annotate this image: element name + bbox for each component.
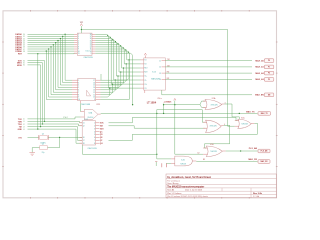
capacitor C7 (40, 146, 48, 150)
svg-text:74HC245N: 74HC245N (83, 57, 93, 59)
wire (165, 60, 252, 62)
wire (28, 136, 39, 138)
junction (57, 40, 58, 41)
junction (37, 53, 38, 54)
wire gate C out loop (109, 123, 258, 140)
svg-text:D8: D8 (23, 51, 25, 53)
wire (101, 112, 258, 114)
wire bus (28, 65, 41, 127)
svg-text:S0: S0 (23, 60, 25, 62)
junction (60, 38, 61, 39)
IC U2 pin 7 (72, 94, 78, 96)
wire (205, 125, 230, 148)
junction (123, 47, 124, 48)
flag MAX_A1 (264, 65, 274, 69)
svg-text:S2: S2 (23, 65, 25, 67)
svg-text:74HC165N: 74HC165N (87, 148, 97, 150)
junction (107, 35, 108, 36)
junction (125, 49, 126, 50)
junction (53, 44, 54, 45)
wire u2data3 (101, 72, 121, 87)
wire (95, 51, 129, 99)
gate U3A NAND (84, 109, 98, 119)
wire (226, 150, 258, 152)
svg-text:IC12: IC12 (84, 119, 88, 121)
wire to gate B in2 (109, 126, 206, 128)
svg-text:10: 10 (90, 51, 92, 53)
IC U4 pin R4 (96, 131, 100, 133)
svg-text:J2: J2 (23, 124, 25, 126)
IC U1 74HC245 box (77, 33, 92, 55)
wire (28, 50, 75, 52)
wire (119, 71, 141, 73)
wire data0 (95, 34, 108, 88)
IC U4 pin R5 (96, 134, 100, 136)
svg-text:GND: GND (18, 129, 23, 131)
IC U5 pin L6 (141, 79, 144, 81)
IC U5 pin R4 (162, 78, 166, 80)
svg-text:D5: D5 (23, 45, 25, 47)
IC U5 pin L1 (141, 59, 144, 61)
svg-text:Sven /Benny: Sven /Benny (167, 183, 178, 185)
IC U5 pin L8 (141, 87, 144, 89)
svg-text:PLX_AB: PLX_AB (249, 147, 258, 150)
junction (48, 48, 49, 49)
svg-text:5: 5 (94, 134, 95, 136)
wire (114, 79, 141, 81)
junction (55, 42, 56, 43)
IC U2 pin 9 (72, 98, 78, 100)
junction (46, 50, 47, 51)
wire (196, 161, 257, 163)
svg-text:The MAX232 transceivercomputer: The MAX232 transceivercomputer (167, 186, 204, 189)
svg-text:5: 5 (78, 40, 79, 42)
svg-text:74HC32N: 74HC32N (210, 151, 217, 153)
svg-text:4: 4 (78, 85, 79, 87)
wire u2data0 (101, 60, 130, 80)
svg-text:Plot:1.1 leefsma 2013-07-19: Plot:1.1 leefsma 2013-07-19 15:31:33 33%… (167, 195, 208, 198)
svg-text:12: 12 (159, 67, 161, 69)
U5 top pin (144, 55, 146, 58)
IC U1 pin 2 (74, 35, 77, 37)
wire (127, 59, 141, 61)
svg-text:18: 18 (83, 143, 85, 145)
svg-text:74HC08: 74HC08 (180, 164, 186, 166)
svg-text:14: 14 (93, 87, 95, 89)
junction (112, 39, 113, 40)
junction (120, 71, 121, 72)
wire (116, 75, 140, 77)
wire (200, 101, 205, 105)
svg-text:RX: RX (203, 159, 205, 161)
IC U1 pin 7 (74, 46, 77, 48)
junction (128, 59, 129, 60)
svg-text:12: 12 (90, 47, 92, 49)
svg-text:3: 3 (78, 82, 79, 84)
flag MAX_A3 (264, 78, 274, 82)
svg-text:8: 8 (78, 47, 79, 49)
wire xtal2 (28, 117, 81, 119)
svg-text:74HC00: 74HC00 (87, 117, 93, 119)
junction (120, 45, 121, 46)
flag MAX_A0 (264, 59, 274, 63)
wire (28, 35, 75, 37)
wire (155, 162, 157, 166)
svg-text:MAX_A2: MAX_A2 (255, 72, 264, 75)
IC U2 pin 2 (72, 82, 78, 84)
junction (115, 79, 116, 80)
wire (100, 74, 102, 80)
svg-text:+5 SMD1: +5 SMD1 (164, 102, 172, 104)
wire (80, 26, 82, 33)
svg-text:For working at: For working at (167, 179, 180, 182)
svg-text:D0: D0 (23, 34, 25, 36)
wire (28, 129, 83, 143)
IC U5 pin L4 (141, 71, 144, 73)
svg-text:J3: J3 (23, 126, 25, 128)
svg-text:Q1: Q1 (42, 133, 44, 135)
svg-text:22p: 22p (42, 152, 45, 154)
wire to gate C in1 (109, 117, 238, 122)
junction (40, 126, 41, 127)
junction (117, 75, 118, 76)
wire data6 (95, 47, 124, 64)
wire (28, 44, 75, 46)
svg-text:D2: D2 (23, 38, 25, 40)
svg-text:D4: D4 (23, 43, 25, 45)
wire u2data4 (101, 76, 119, 90)
svg-text:11: 11 (83, 123, 85, 125)
junction (64, 34, 65, 35)
wire (162, 90, 252, 95)
svg-text:9: 9 (91, 53, 92, 55)
wire (124, 63, 140, 65)
wire (28, 46, 75, 48)
IC U2 pin 4 (72, 86, 78, 88)
svg-text:C1+: C1+ (144, 76, 147, 78)
wire (200, 105, 205, 108)
wire bus v (65, 34, 72, 80)
junction (82, 137, 83, 138)
junction (81, 29, 82, 30)
wire (157, 113, 171, 158)
wire data2 (95, 39, 114, 81)
svg-text:S1: S1 (23, 63, 25, 65)
wire (157, 110, 206, 123)
svg-text:11: 11 (159, 60, 161, 62)
wire u2data1 (101, 64, 127, 83)
wire (28, 48, 75, 50)
junction (117, 43, 118, 44)
svg-text:P3: P3 (268, 79, 270, 81)
svg-text:9: 9 (94, 99, 95, 101)
svg-text:IC13: IC13 (152, 71, 156, 73)
wire bus v (63, 36, 72, 82)
capacitor C9 (162, 163, 167, 167)
svg-text:J1: J1 (23, 121, 25, 123)
svg-text:Plot: 1.1 Uniform: Plot: 1.1 Uniform (167, 192, 182, 195)
svg-text:2: 2 (78, 34, 79, 36)
wire bus v (60, 39, 72, 86)
junction (109, 88, 110, 89)
title block (166, 174, 277, 198)
IC U1 pin 1 (74, 33, 77, 35)
junction (163, 104, 164, 105)
IC U1 pin 10 (74, 52, 77, 54)
IC U4 pin R8 (96, 142, 100, 144)
junction (132, 104, 133, 105)
svg-text:Size: A4: Size: A4 (167, 189, 174, 192)
svg-text:9: 9 (78, 97, 79, 99)
wire (28, 124, 83, 126)
svg-text:6: 6 (78, 90, 79, 92)
svg-text:7: 7 (94, 140, 95, 142)
flag PLX_AB (258, 149, 270, 153)
IC U5 pin R3 (162, 72, 166, 74)
wire bus (28, 63, 43, 124)
IC U2 74HC244 box (78, 79, 96, 101)
svg-text:J4: J4 (23, 129, 25, 131)
svg-text:SDO: SDO (100, 128, 104, 130)
IC U2 pin 6 (72, 91, 78, 93)
svg-text:10: 10 (93, 97, 95, 99)
svg-text:D3: D3 (23, 40, 25, 42)
wire (83, 137, 157, 154)
junction (156, 113, 157, 114)
svg-text:8: 8 (94, 143, 95, 145)
svg-text:MAX_A3: MAX_A3 (255, 78, 264, 81)
junction (44, 121, 45, 122)
svg-text:17: 17 (83, 140, 85, 142)
wire (163, 104, 165, 114)
svg-text:4: 4 (78, 38, 79, 40)
junction (123, 67, 124, 68)
wire data7 (95, 49, 127, 60)
wire VCC rail (81, 30, 234, 127)
gate U7C OR (238, 119, 251, 128)
wire (165, 66, 252, 68)
flag MAX_RX (258, 160, 270, 164)
svg-text:12: 12 (83, 125, 85, 127)
svg-text:P2: P2 (268, 73, 270, 75)
svg-text:17: 17 (93, 80, 95, 82)
wire (28, 121, 83, 122)
wire (122, 67, 141, 69)
junction (42, 123, 43, 124)
svg-text:XT1: XT1 (18, 137, 21, 139)
svg-text:IC10: IC10 (86, 51, 90, 53)
junction (115, 41, 116, 42)
junction (59, 137, 60, 138)
wire (165, 72, 252, 74)
IC U2 symbol mark (87, 90, 91, 96)
IC U5 MAX202 box (144, 58, 166, 90)
svg-text:9: 9 (78, 49, 79, 51)
svg-text:14: 14 (90, 42, 92, 44)
junction (239, 113, 240, 114)
svg-text:MAX_TX: MAX_TX (246, 111, 255, 114)
wire RST down (37, 54, 39, 129)
wire (80, 103, 82, 111)
wire u2data5 (101, 80, 116, 92)
wire (224, 104, 239, 121)
svg-text:16: 16 (83, 137, 85, 139)
wire bus v (58, 41, 72, 88)
IC U1 pin 5 (74, 42, 77, 44)
svg-text:2: 2 (78, 80, 79, 82)
svg-text:4: 4 (94, 131, 95, 133)
wire (28, 38, 75, 40)
svg-text:LT 1054: LT 1054 (147, 100, 157, 104)
flag MAX_A2 (264, 71, 274, 75)
svg-text:7: 7 (78, 45, 79, 47)
svg-text:MAX_RX: MAX_RX (260, 160, 268, 163)
wire (48, 137, 60, 147)
wire (95, 53, 132, 104)
junction (240, 150, 241, 151)
wire u2data6 (101, 84, 113, 95)
wire data5 (95, 45, 121, 68)
svg-text:1: 1 (94, 123, 95, 125)
IC U5 pin L3 (141, 67, 144, 69)
svg-text:MAX_A1: MAX_A1 (255, 66, 264, 69)
junction (37, 128, 38, 129)
svg-text:PLX_AB: PLX_AB (261, 150, 268, 153)
svg-text:18: 18 (90, 34, 92, 36)
svg-text:3: 3 (78, 36, 79, 38)
wire (165, 78, 252, 80)
svg-text:5: 5 (78, 87, 79, 89)
power VCC (80, 24, 82, 26)
svg-text:Rev 3.0b: Rev 3.0b (253, 193, 263, 195)
svg-text:10: 10 (78, 51, 80, 53)
junction (126, 63, 127, 64)
wire (28, 127, 83, 141)
svg-text:11: 11 (93, 94, 95, 96)
IC U4 pin R6 (96, 136, 100, 138)
wire (111, 83, 140, 85)
wire bus v (51, 47, 72, 95)
IC U4 pin R7 (96, 139, 100, 141)
svg-text:MAX202E: MAX202E (151, 78, 160, 81)
svg-text:MOSI: MOSI (17, 65, 22, 67)
svg-text:C2+: C2+ (144, 84, 147, 86)
svg-text:C16 a: C16 a (157, 98, 161, 100)
junction (156, 154, 157, 155)
IC U4 pin R1 (96, 122, 100, 124)
wire data4 (95, 43, 119, 72)
IC U5 pin L5 (141, 75, 144, 77)
junction (174, 104, 175, 105)
wire (175, 105, 203, 155)
wire bus v (56, 43, 72, 90)
svg-text:MAX_EN: MAX_EN (255, 94, 264, 97)
svg-text:MAX_RX: MAX_RX (248, 158, 257, 161)
svg-text:15: 15 (93, 85, 95, 87)
wire u2data2 (101, 68, 124, 85)
gate U7D OR (206, 146, 222, 157)
svg-text:11: 11 (90, 49, 92, 51)
wire (28, 40, 75, 42)
IC U1 pin 8 (74, 48, 77, 50)
wire bus v (53, 45, 72, 92)
svg-text:Date: 1 Jan 13 2013: Date: 1 Jan 13 2013 (185, 189, 202, 192)
wire (109, 87, 141, 89)
svg-text:15: 15 (90, 40, 92, 42)
wire (166, 162, 171, 164)
svg-text:11: 11 (78, 53, 80, 55)
svg-text:P1: P1 (268, 67, 270, 69)
svg-text:by_donaldson, rwest, SoYS and: by_donaldson, rwest, SoYS and Green (167, 176, 211, 179)
IC U2 pin 5 (72, 89, 78, 91)
wire data3 (95, 41, 116, 76)
IC U1 pin 6 (74, 44, 77, 46)
junction (62, 36, 63, 37)
gate U7B OR (206, 120, 222, 132)
svg-text:D1: D1 (23, 36, 25, 38)
wire u2data7 (101, 88, 110, 97)
svg-text:2: 2 (94, 125, 95, 127)
IC U5 pin L2 (141, 63, 144, 65)
svg-text:D6: D6 (23, 47, 25, 49)
svg-text:D7: D7 (23, 49, 25, 51)
svg-text:13: 13 (93, 90, 95, 92)
svg-text:12: 12 (93, 92, 95, 94)
wire (32, 148, 39, 153)
wire (174, 101, 176, 105)
IC U5 pin L7 (141, 83, 144, 85)
IC U1 pin 3 (74, 38, 77, 40)
svg-text:IC11: IC11 (96, 104, 100, 106)
junction (163, 113, 164, 114)
svg-text:6: 6 (78, 42, 79, 44)
frame border (3, 11, 277, 198)
IC U5 pin R1 (162, 60, 166, 62)
junction (128, 52, 129, 53)
svg-text:1 / 1.0b: 1 / 1.0b (253, 196, 259, 198)
wire (48, 136, 82, 138)
IC U4 74HC165 box (82, 121, 95, 145)
wire (28, 33, 75, 35)
svg-text:17: 17 (90, 36, 92, 38)
junction (110, 37, 111, 38)
IC U2 pin 1 (72, 79, 78, 81)
svg-text:74HC32N: 74HC32N (210, 125, 218, 127)
wire RST (28, 52, 78, 55)
svg-text:13: 13 (159, 73, 161, 75)
IC U4 pin R2 (96, 125, 100, 127)
svg-text:J0: J0 (23, 119, 25, 121)
wire (28, 42, 75, 44)
IC U2 pin 8 (72, 96, 78, 98)
wire bus (28, 61, 45, 122)
svg-text:74HC32N: 74HC32N (241, 123, 248, 125)
IC U4 pin R3 (96, 128, 100, 130)
IC U1 pin 9 (74, 50, 77, 52)
svg-text:74HC32N: 74HC32N (211, 104, 219, 106)
svg-text:P0: P0 (268, 60, 270, 62)
wire bus v (46, 51, 72, 99)
wire data1 (95, 36, 111, 84)
crystal Q1 (40, 136, 48, 140)
svg-text:SDI: SDI (100, 125, 103, 127)
svg-text:16: 16 (93, 82, 95, 84)
gate U8D AND (175, 156, 193, 166)
svg-text:16: 16 (90, 38, 92, 40)
svg-text:7: 7 (78, 92, 79, 94)
svg-text:VCC: VCC (80, 22, 83, 24)
svg-text:D2: D2 (198, 152, 200, 154)
